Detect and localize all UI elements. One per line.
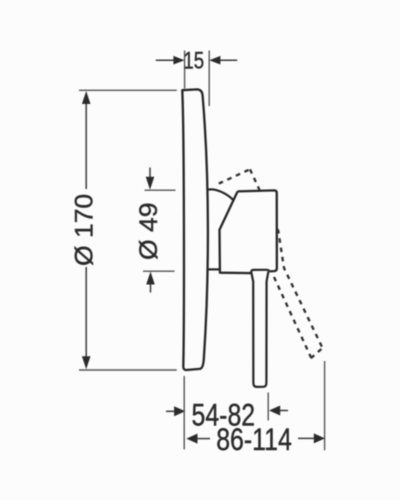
dimension 54-82: right arrow [269,406,288,416]
dimension 15: right extension line [208,51,210,107]
dashed handle rotated position: tent left edge [219,169,250,183]
dimension 86-114: value label [216,422,292,458]
dashed handle rotated position: upper edge [250,169,322,347]
dimension D170: bottom extension line [79,369,177,371]
dimension D170: top extension line [79,89,177,91]
dimension 15: left arrow [156,56,185,65]
dashed handle rotated position: lower edge [274,277,311,358]
dimension 54-82: value label [191,398,255,434]
svg-text:15: 15 [183,47,204,74]
svg-text:Ø 49: Ø 49 [135,203,162,260]
dimension D49: top arrow [146,168,155,190]
svg-text:86-114: 86-114 [216,422,292,458]
dimension 15: value label [183,47,204,74]
dimension D49: top extension line [145,189,176,191]
dimension 54-82: left arrow [166,406,185,416]
dimension 15: left extension line [184,51,186,89]
dimension 86-114: left arrow [186,434,210,444]
dimension D170: value label [71,194,98,266]
dimension D170: dimension line with arrows [82,91,91,369]
dashed handle rotated position: tip end [311,348,323,358]
dimension 15: right arrow [209,56,237,65]
dimension 54-82: right extension line [267,393,269,421]
dimension 86-114: right extension line [324,361,326,450]
escutcheon plate (side view) [182,89,208,370]
handle body fill (hides dashed lines behind) [219,190,278,274]
dimension 86-114: left extension line [183,376,185,449]
dimension D49: bottom arrow [146,272,155,293]
svg-text:Ø 170: Ø 170 [71,194,98,266]
lever handle (solid, pointing down) [251,272,268,387]
lever flange arc at body bottom [251,270,270,273]
sleeve between plate and body [208,189,234,269]
handle body outline [220,190,277,273]
dimension D49: bottom extension line [143,270,175,272]
dimension D49: value label [135,203,162,260]
dimension 86-114: right arrow [298,433,325,443]
